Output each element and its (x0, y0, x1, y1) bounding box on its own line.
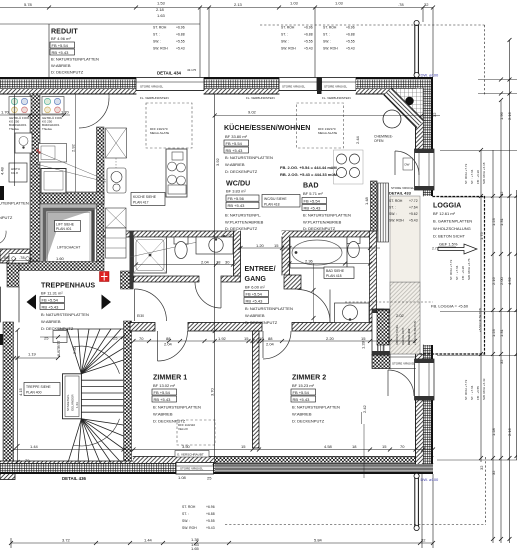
svg-text:9.02: 9.02 (248, 110, 257, 115)
pipe DW top (414, 20, 419, 77)
svg-text:FB +5.54: FB +5.54 (154, 390, 171, 395)
svg-text:25: 25 (207, 476, 212, 481)
svg-text:SW. :: SW. : (323, 40, 331, 44)
svg-text:RB +5.43: RB +5.43 (228, 203, 246, 208)
wall wcdu west thin x129.5-133.5 (130, 231, 134, 289)
svg-text:BF 6.00 m²: BF 6.00 m² (245, 285, 265, 290)
svg-text:SW. ROH +6.76: SW. ROH +6.76 (467, 258, 471, 280)
door entry EI30 treppenhaus-entree (135, 289, 167, 321)
svg-text:FB +5.56: FB +5.56 (228, 196, 245, 201)
wall zimmer top y322-331 segment x130-155 (130, 323, 155, 332)
svg-text:FB +5.54: FB +5.54 (52, 43, 69, 48)
dim extension lines right (213, 80, 517, 461)
svg-text:ST. ROH +7.72: ST. ROH +7.72 (449, 259, 453, 280)
dim vertical x214.7 zimmer1 (213, 94, 217, 465)
svg-text:SW. ROH: SW. ROH (153, 47, 168, 51)
line window left x19 y287-322 (18, 287, 20, 322)
svg-text:REDUIT: REDUIT (51, 28, 78, 36)
svg-text:2.16: 2.16 (491, 276, 496, 285)
svg-text:STORE VR60 EL: STORE VR60 EL (140, 85, 163, 89)
svg-text:D: DECKENPUTZ: D: DECKENPUTZ (292, 419, 325, 424)
door kitchen-loggia east (395, 151, 419, 175)
wall left checker x7-19 y263-287 (7, 263, 19, 287)
room label LOGGIA (432, 202, 477, 255)
cabinet HWTU neighbor (9, 163, 27, 182)
svg-text:2.04: 2.04 (266, 342, 275, 347)
shaft wall x371-377 y181-229 dark (371, 181, 378, 231)
door zimmer2 (263, 331, 291, 359)
svg-text:B: NATURSTEINPLATTEN: B: NATURSTEINPLATTEN (303, 213, 351, 218)
stair direction arrow right (102, 295, 112, 310)
svg-text:STORE VR60 EL: STORE VR60 EL (391, 186, 414, 190)
kitchen cooktop group right (334, 150, 364, 184)
window zimmer1 bottom wall (176, 463, 214, 475)
svg-text:SW. ROH: SW. ROH (389, 219, 404, 223)
svg-text:15: 15 (361, 336, 366, 341)
shower wcdu (134, 237, 167, 273)
svg-text:D: DECKENPUTZ: D: DECKENPUTZ (41, 326, 74, 331)
svg-text:DETAIL 436: DETAIL 436 (62, 476, 87, 481)
svg-text:1.19: 1.19 (28, 352, 37, 357)
svg-text:MEGA-SLATE: MEGA-SLATE (150, 131, 169, 135)
svg-text:W:PLATTEN/ABRIEB: W:PLATTEN/ABRIEB (225, 220, 264, 225)
svg-text:OFEN: OFEN (374, 139, 384, 143)
svg-text:W:PLATTEN/ABRIEB: W:PLATTEN/ABRIEB (303, 220, 342, 225)
svg-text:2.02: 2.02 (396, 313, 405, 318)
dim line bad y263 (288, 262, 373, 266)
chimney oven circle (383, 110, 401, 128)
svg-text:RB. 2.OG. +5.43 = 444.33 müM: RB. 2.OG. +5.43 = 444.33 müM (280, 172, 338, 177)
guide dashed y25 right (260, 24, 485, 26)
svg-text:FB +5.54: FB +5.54 (42, 297, 59, 302)
svg-text:+5.50 OK BETON: +5.50 OK BETON (478, 308, 482, 332)
svg-text:W:ABRIEB: W:ABRIEB (41, 319, 61, 324)
svg-text:1.63: 1.63 (157, 13, 166, 18)
window W1 top wall (136, 78, 204, 91)
window right wall kitchen (DETAIL 433) (415, 149, 435, 190)
lift label box (55, 221, 81, 232)
wall top exterior band segments (0, 77, 433, 94)
svg-text:FB. 2.OG. +5.54 = 444.44 müM: FB. 2.OG. +5.54 = 444.44 müM (280, 165, 337, 170)
svg-text:W:HOLZSCHALUNG: W:HOLZSCHALUNG (433, 226, 471, 231)
svg-text:BF 13.02 m²: BF 13.02 m² (153, 383, 176, 388)
svg-text:SW. ROH +6.18: SW. ROH +6.18 (482, 162, 486, 184)
svg-text:1.23: 1.23 (491, 217, 496, 226)
svg-text:DW. ø100: DW. ø100 (421, 73, 440, 78)
svg-text:LOGGIA: LOGGIA (433, 202, 461, 210)
svg-text:25: 25 (113, 336, 118, 341)
svg-text:W:ABRIEB: W:ABRIEB (51, 63, 71, 68)
svg-text:1.65: 1.65 (191, 546, 200, 550)
svg-text:ST. ROH +7.72: ST. ROH +7.72 (464, 163, 468, 184)
wall zimmer top segment x188-262 (188, 323, 262, 332)
svg-text:+5.43: +5.43 (409, 219, 418, 223)
svg-text:.78: .78 (398, 2, 404, 7)
lift shaft inner lining (40, 204, 97, 261)
svg-text:+7.72: +7.72 (409, 199, 418, 203)
dashed skylight DFF kitchen right (297, 103, 344, 148)
svg-text:+5.55: +5.55 (346, 40, 355, 44)
svg-text:DW: DW (405, 163, 410, 167)
svg-text:ZIMMER 1: ZIMMER 1 (153, 374, 187, 382)
svg-text:15: 15 (274, 243, 279, 248)
svg-text:15: 15 (382, 444, 387, 449)
svg-text:PLAN 418: PLAN 418 (326, 274, 342, 278)
svg-text:RB +5.43: RB +5.43 (154, 397, 172, 402)
shaft beige column x390-420 y282-354 (390, 282, 420, 354)
dim line top chain y7.5 (0, 6, 435, 10)
dim vertical x313.5 entree (312, 264, 316, 323)
wall block x120-133 y272-289 (121, 271, 134, 289)
dashed vertical x485.5 bottom (485, 457, 487, 525)
kitchen island counter (166, 149, 187, 197)
svg-text:LIFT SIEHE: LIFT SIEHE (56, 222, 75, 226)
svg-text:ST. :: ST. : (323, 33, 330, 37)
box BAD SIEHE PLAN 418 (324, 267, 354, 279)
box TREPPE SIEHE PLAN 400 (24, 383, 60, 396)
svg-text:2.72: 2.72 (432, 247, 439, 251)
wall black stub left y334-345 (0, 334, 12, 345)
guide vertical x200 (199, 8, 201, 78)
svg-text:BF 4.96 m²: BF 4.96 m² (51, 36, 71, 41)
svg-text:1.92: 1.92 (218, 336, 227, 341)
rotated level col right lower (464, 378, 486, 400)
svg-text:2.00: 2.00 (499, 276, 504, 285)
toilet wcdu (174, 237, 188, 259)
guide line y24 left (0, 23, 200, 25)
room label TREPPENHAUS (40, 282, 95, 332)
svg-text:LIFTSCHACHT: LIFTSCHACHT (57, 246, 80, 250)
svg-text:30: 30 (225, 260, 230, 265)
svg-text:NPUTZ: NPUTZ (0, 215, 13, 220)
wall top segment C x356-433 with corner (356, 77, 433, 94)
svg-text:PLAN 400: PLAN 400 (26, 391, 42, 395)
wall wcdu top y231-237 x104-236.5 (104, 231, 237, 237)
dim line wcdu y264 (134, 263, 235, 267)
svg-text:PLAN 401: PLAN 401 (56, 227, 72, 231)
svg-text:2.13: 2.13 (234, 2, 243, 7)
wall right exterior x415-433 upper (416, 79, 434, 196)
svg-text:DETAIL 432: DETAIL 432 (407, 328, 411, 345)
svg-text:3.72: 3.72 (62, 538, 71, 543)
svg-text:FB : +6.55: FB : +6.55 (476, 386, 480, 400)
shaft hatch x378-389 y185-242 (378, 183, 389, 242)
SECTION: walls (0, 77, 485, 480)
svg-text:FB +5.54: FB +5.54 (226, 141, 243, 146)
appliance right group reduit (42, 97, 64, 115)
stair exit tread (53, 331, 67, 343)
stair direction arrow left (27, 295, 37, 310)
svg-text:BF 3.83 m²: BF 3.83 m² (226, 189, 246, 194)
wall bad top y231-237 x282-375 (282, 231, 375, 237)
svg-text:WC/DU: WC/DU (226, 180, 250, 188)
svg-text:B: NATURSTEINPL.: B: NATURSTEINPL. (225, 213, 261, 218)
sink counter neighbor left (15, 133, 32, 153)
wall sill block bottom left (0, 463, 15, 480)
svg-text:STORE VR60 EL: STORE VR60 EL (282, 85, 305, 89)
dim line bottom rooms y449.5 (12, 448, 435, 452)
svg-text:1.31: 1.31 (499, 217, 504, 226)
stair walk line arc top (73, 346, 120, 374)
svg-text:Thielsa: Thielsa (9, 127, 19, 131)
svg-text:FB +5.54: FB +5.54 (246, 291, 263, 296)
leader line wcdu (130, 235, 231, 258)
svg-text:B: NATURSTEINPLATTEN: B: NATURSTEINPLATTEN (51, 57, 99, 62)
svg-text:GEF 1.5%: GEF 1.5% (439, 242, 458, 247)
window W3 top wall (322, 78, 357, 91)
svg-text:32: 32 (479, 465, 484, 470)
svg-text:ST. ROH +7.72: ST. ROH +7.72 (464, 379, 468, 400)
svg-text:B: NATURSTEINPLATTEN: B: NATURSTEINPLATTEN (153, 405, 201, 410)
corner chamfer wall 45deg (384, 88, 424, 128)
window right wall lower (zimmer2 SE) (415, 359, 435, 400)
svg-text:1.60: 1.60 (56, 256, 65, 261)
svg-text:4.15: 4.15 (18, 387, 23, 396)
SECTION: doors (79, 94, 419, 396)
svg-text:Thielsa: Thielsa (42, 127, 52, 131)
wall right exterior lower x415-433 y354-474 (416, 345, 434, 464)
svg-text:+5.55: +5.55 (176, 40, 185, 44)
svg-text:G. VERSCHRAUBT: G. VERSCHRAUBT (177, 453, 204, 457)
dashed line bottom y524.5 (225, 524, 486, 526)
svg-text:WC/DU SIEHE: WC/DU SIEHE (264, 197, 287, 201)
svg-text:SW. ROH: SW. ROH (323, 47, 338, 51)
svg-text:BF 33.80 m²: BF 33.80 m² (225, 134, 248, 139)
svg-text:TREPPE SIEHE: TREPPE SIEHE (26, 385, 51, 389)
svg-text:FB. LOGGIA = +5.60: FB. LOGGIA = +5.60 (431, 304, 469, 309)
svg-text:ENTREE/: ENTREE/ (245, 265, 276, 273)
door reduit (79, 94, 109, 128)
guide dashed x484 vertical (484, 25, 486, 95)
wall top segment B x204-279 (204, 77, 279, 94)
bathtub bad (290, 237, 347, 268)
svg-text:+6.88: +6.88 (346, 33, 355, 37)
svg-text:+6.88: +6.88 (206, 512, 215, 516)
svg-text:+5.43: +5.43 (346, 47, 355, 51)
wall stub black left edge (0, 186, 4, 200)
svg-text:RB +5.43: RB +5.43 (304, 205, 322, 210)
svg-text:18: 18 (352, 444, 357, 449)
svg-text:1.44: 1.44 (30, 444, 39, 449)
dim vertical x17.5 treppenhaus (16, 328, 20, 464)
svg-text:+6.96: +6.96 (346, 26, 355, 30)
svg-text:B: NATURSTEINPLATTEN: B: NATURSTEINPLATTEN (225, 155, 273, 160)
box KUECHE SIEHE PLAN 417 (131, 193, 165, 206)
dashed skylight DFF zimmer1 velux (177, 420, 215, 445)
svg-text:2.16: 2.16 (507, 427, 512, 436)
wall reduit west x30-40 checkered (30, 94, 40, 261)
svg-text:5.84: 5.84 (314, 538, 323, 543)
svg-text:+5.62: +5.62 (409, 212, 418, 216)
washbasin bad south (335, 303, 370, 323)
svg-text:FB +5.54: FB +5.54 (293, 390, 310, 395)
svg-text:+7.64: +7.64 (409, 206, 418, 210)
level block loggia west (389, 199, 418, 223)
svg-text:D: DECKENPUTZ: D: DECKENPUTZ (245, 320, 278, 325)
svg-text:D: DECKENPUTZ: D: DECKENPUTZ (225, 169, 258, 174)
svg-text:15: 15 (241, 444, 246, 449)
svg-text:70: 70 (400, 444, 405, 449)
level block window W3 (323, 26, 355, 51)
svg-text:+6.96: +6.96 (206, 505, 215, 509)
svg-text:W:ABRIEB: W:ABRIEB (153, 412, 173, 417)
level block window W1 (153, 26, 185, 51)
stair walk line arc bottom (73, 419, 120, 446)
svg-text:ZIMMER 2: ZIMMER 2 (292, 374, 326, 382)
svg-text:DETAIL 434: DETAIL 434 (157, 71, 182, 76)
room label BAD (302, 182, 351, 232)
svg-text:BAD SIEHE: BAD SIEHE (326, 269, 345, 273)
kitchen tall cabinets west wall (106, 128, 127, 258)
leader lines reduit to oven (36, 151, 106, 182)
room label ZIMMER 1 (152, 374, 201, 424)
svg-text:BF 12.61 m²: BF 12.61 m² (433, 211, 456, 216)
stair straight treads (81, 380, 123, 412)
svg-text:TREPPENHAUS: TREPPENHAUS (41, 282, 95, 290)
svg-text:STORE VR60 EL: STORE VR60 EL (180, 467, 203, 471)
svg-text:+6.88: +6.88 (176, 33, 185, 37)
svg-text:+5.43: +5.43 (304, 47, 313, 51)
dim line corridor y248 (239, 246, 381, 250)
arrow GEF (438, 244, 477, 254)
dim chain bottom y543 (9, 474, 435, 548)
svg-text:RB +5.43: RB +5.43 (293, 397, 311, 402)
stair top fan treads (67, 329, 124, 374)
svg-text:D: DECKENPUTZ: D: DECKENPUTZ (225, 226, 258, 231)
svg-text:B: NATURSTEINPLATTEN: B: NATURSTEINPLATTEN (41, 312, 89, 317)
svg-text:GANG: GANG (245, 275, 267, 283)
svg-text:D: DECKENPUTZ: D: DECKENPUTZ (303, 226, 336, 231)
svg-text:SW. ROH +6.43: SW. ROH +6.43 (482, 378, 486, 400)
svg-text:CHEMINEE-: CHEMINEE- (374, 135, 393, 139)
svg-text:5.78: 5.78 (24, 2, 33, 7)
svg-text:STAKETEN-: STAKETEN- (66, 394, 70, 411)
svg-text:ST. :: ST. : (182, 512, 189, 516)
svg-text:+5.55: +5.55 (206, 519, 215, 523)
svg-text:SW. :: SW. : (153, 40, 161, 44)
washer tower reduit with X (36, 144, 67, 194)
svg-text:W:ABRIEB: W:ABRIEB (225, 162, 245, 167)
svg-text:2.16: 2.16 (507, 111, 512, 120)
window zimmer2 east x372-390 y309-355 (372, 309, 390, 355)
svg-text:32: 32 (432, 112, 437, 117)
svg-text:3.70: 3.70 (210, 387, 215, 396)
dim line stairs top y337 (40, 335, 125, 339)
svg-text:FB : +6.28: FB : +6.28 (461, 266, 465, 280)
dim leader zimmer2 x364 vertical (362, 412, 365, 478)
guide vertical x209 (208, 8, 210, 78)
door zimmer2 SE (388, 370, 414, 396)
svg-text:ST. ROH: ST. ROH (182, 505, 196, 509)
washbasin wcdu (196, 237, 233, 254)
SECTION: fixtures (0, 20, 419, 530)
svg-text:1.96: 1.96 (499, 111, 504, 120)
room label WC/DU (225, 180, 300, 232)
svg-text:79: 79 (25, 458, 30, 463)
wall top pillar x317-321 (317, 77, 322, 94)
room label ENTREE/GANG (244, 265, 293, 325)
wall bad west corner block x284-301 y275-289 (284, 275, 301, 289)
svg-text:1.75: 1.75 (479, 231, 484, 240)
svg-text:FB +5.54: FB +5.54 (304, 198, 321, 203)
svg-text:1.70: 1.70 (61, 110, 70, 115)
svg-text:78: 78 (216, 260, 221, 265)
guide vertical x423 (422, 8, 424, 23)
guide vertical x315 pillar (314, 8, 316, 78)
wall kitchen west x96.5-104 checkered (97, 127, 105, 262)
door zimmer1 (158, 331, 188, 361)
wall lobby bottom y261-270 x7-104 (7, 262, 104, 271)
shaft rotated labels (395, 321, 417, 345)
svg-text:KÜCHE/ESSEN/WOHNEN: KÜCHE/ESSEN/WOHNEN (224, 123, 310, 132)
svg-text:2.42: 2.42 (362, 404, 367, 413)
svg-text:+6.88: +6.88 (304, 33, 313, 37)
svg-text:1.03: 1.03 (335, 1, 344, 6)
svg-text:88: 88 (268, 336, 273, 341)
svg-text:3.50: 3.50 (182, 444, 191, 449)
wall bad west x282-289.5 (282, 231, 290, 275)
svg-text:ST. ROH: ST. ROH (281, 26, 295, 30)
svg-text:1.70: 1.70 (1, 110, 10, 115)
svg-text:88: 88 (166, 336, 171, 341)
room label REDUIT (50, 28, 99, 75)
svg-text:ST. ROH: ST. ROH (389, 199, 403, 203)
svg-text:UTEINPLATTEN: UTEINPLATTEN (0, 201, 29, 206)
chimney block grid (392, 89, 423, 120)
guide vertical x433 (432, 8, 434, 78)
svg-text:DECKE ORT.: DECKE ORT. (401, 327, 405, 345)
svg-text:4.48: 4.48 (0, 166, 5, 175)
svg-text:B: NATURSTEINPLATTEN: B: NATURSTEINPLATTEN (245, 306, 293, 311)
svg-text:15: 15 (244, 336, 249, 341)
svg-text:EI30: EI30 (137, 314, 144, 318)
svg-text:BF 5.71 m²: BF 5.71 m² (303, 191, 323, 196)
svg-text:1.28: 1.28 (361, 340, 366, 349)
wall sill block left mid y249-261 (0, 249, 30, 263)
DW box kitchen door (403, 158, 413, 170)
svg-text:PLAN 417: PLAN 417 (133, 201, 149, 205)
dim line treppenhaus left y260 (0, 259, 32, 263)
svg-text:STORE VR60 EL: STORE VR60 EL (392, 362, 415, 366)
svg-text:BAD: BAD (303, 182, 319, 190)
svg-text:VELUX: VELUX (178, 427, 188, 431)
wall divider zimmer1-zimmer2 x252.8-259 (253, 331, 260, 448)
hydrant red symbol (100, 272, 110, 282)
appliance label left (9, 116, 29, 131)
svg-text:+6.96: +6.96 (304, 26, 313, 30)
svg-text:2.04: 2.04 (201, 260, 210, 265)
level block bottom zimmer1 (182, 505, 215, 530)
appliance label right (42, 116, 62, 131)
svg-text:1.31: 1.31 (499, 328, 504, 337)
svg-text:DW. ø100: DW. ø100 (421, 477, 440, 482)
svg-text:B. GARTENPLATTEN: B. GARTENPLATTEN (433, 219, 472, 224)
svg-text:ST. : +7.64: ST. : +7.64 (470, 169, 474, 184)
stair railing box (63, 374, 82, 419)
dim labels top (24, 1, 429, 19)
svg-text:ST. : +7.64: ST. : +7.64 (455, 265, 459, 280)
svg-text:AUSTRITT: AUSTRITT (57, 340, 61, 357)
wall bad east x369-376.5 y231-322 (370, 231, 377, 322)
svg-text:KÜCHE SIEHE: KÜCHE SIEHE (133, 195, 157, 199)
svg-text:32: 32 (424, 2, 429, 7)
svg-text:D: DECKENPUTZ: D: DECKENPUTZ (51, 70, 84, 75)
stair top boundary (58, 328, 124, 330)
svg-text:2.20: 2.20 (326, 336, 335, 341)
wall wcdu east x233.5-240.5 (234, 231, 241, 276)
rotated level col right mid (449, 258, 471, 280)
svg-text:25: 25 (44, 336, 49, 341)
